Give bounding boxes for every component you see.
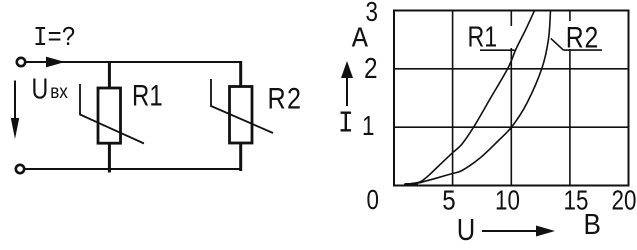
svg-text:1: 1 xyxy=(362,111,374,142)
svg-text:2: 2 xyxy=(364,52,378,84)
varistor R2 nonlinearity stroke xyxy=(211,79,273,133)
svg-text:20: 20 xyxy=(612,185,637,216)
curve start blob on axis xyxy=(405,183,418,186)
varistor R1 body xyxy=(98,88,121,143)
gridline vertical 5V xyxy=(452,11,454,186)
current arrow on top rail xyxy=(46,57,65,68)
svg-text:R1: R1 xyxy=(468,20,498,53)
curve R2 (I-U characteristic) xyxy=(404,11,551,185)
svg-text:U: U xyxy=(32,72,49,105)
svg-text:5: 5 xyxy=(442,184,455,216)
axis arrow U (rightward) xyxy=(482,226,555,237)
svg-text:I=?: I=? xyxy=(33,23,76,54)
svg-text:вх: вх xyxy=(50,81,68,102)
svg-text:U: U xyxy=(457,213,476,247)
wire: R1 top lead xyxy=(108,62,111,88)
svg-text:I: I xyxy=(338,106,354,142)
gridline horizontal 2A xyxy=(394,68,629,70)
svg-text:R2: R2 xyxy=(566,20,599,54)
wire: R1 bottom lead xyxy=(108,143,111,173)
svg-text:10: 10 xyxy=(495,185,520,216)
graph border xyxy=(394,11,629,186)
wire: R2 bottom lead xyxy=(239,143,242,171)
label box R2 (graph) xyxy=(560,21,605,49)
wire: top rail xyxy=(26,61,243,63)
varistor R2 body xyxy=(230,87,253,144)
node: input terminal top xyxy=(17,58,25,66)
svg-text:R2: R2 xyxy=(268,81,303,115)
wire: R2 top lead xyxy=(239,61,242,88)
gridline horizontal 1A xyxy=(394,126,629,128)
axis arrow I (upward) xyxy=(341,61,353,106)
label Uвх (input voltage) xyxy=(32,72,68,105)
gridline vertical 15V xyxy=(569,11,571,186)
svg-text:0: 0 xyxy=(367,185,379,216)
curve label R1 (graph) with underline xyxy=(468,20,515,53)
svg-text:B: B xyxy=(584,208,601,241)
varistor R1 nonlinearity stroke xyxy=(80,84,144,144)
curve label R2 (graph) with underline and pointer xyxy=(551,20,602,54)
svg-text:A: A xyxy=(352,24,369,56)
voltage arrow Uвх (downward) xyxy=(11,81,19,140)
label box R1 (graph) xyxy=(466,26,516,48)
svg-text:R1: R1 xyxy=(132,78,163,112)
gridline vertical 10V xyxy=(510,11,512,186)
curve R1 (I-U characteristic) xyxy=(404,11,535,185)
wire: bottom rail xyxy=(25,168,243,170)
node: input terminal bottom xyxy=(16,165,24,173)
